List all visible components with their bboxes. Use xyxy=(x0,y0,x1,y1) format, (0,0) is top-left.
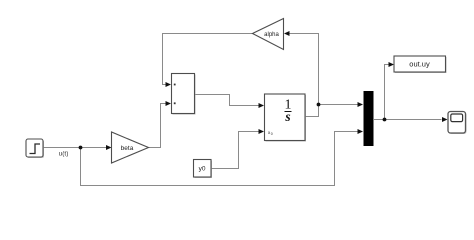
gain alpha xyxy=(253,19,284,50)
arrowhead into sum input 2 xyxy=(166,101,172,106)
wire beta output up to sum input 2 xyxy=(149,104,166,148)
svg-text:s: s xyxy=(284,109,290,124)
node junction feedback to mux xyxy=(317,103,321,107)
step source block xyxy=(26,139,44,158)
arrowhead into beta xyxy=(106,145,112,150)
svg-text:out.uy: out.uy xyxy=(409,60,430,69)
constant y0 block xyxy=(194,160,213,179)
wire sum output to integrator input xyxy=(195,95,259,106)
arrowhead into scope xyxy=(442,117,448,122)
wire feedback junction to mux input 1 xyxy=(319,104,358,106)
arrowhead into integrator x0 port xyxy=(259,129,265,134)
arrowhead into sum input 1 xyxy=(166,82,172,87)
integrator block 1/s xyxy=(265,94,307,142)
arrowhead into mux input 1 xyxy=(358,102,364,107)
mux block xyxy=(364,91,374,146)
label u(t) xyxy=(59,151,69,158)
svg-text:u(t): u(t) xyxy=(59,151,69,158)
node junction after step xyxy=(79,146,83,150)
svg-text:beta: beta xyxy=(121,145,134,152)
sum block xyxy=(172,74,196,115)
wire y0 output to integrator x0 port xyxy=(212,132,259,169)
svg-text:y0: y0 xyxy=(199,166,206,173)
scope block xyxy=(448,112,467,135)
arrowhead into integrator input 1 xyxy=(259,103,265,108)
node junction mux output xyxy=(383,118,387,122)
wire step output to junction to beta xyxy=(43,147,107,149)
wire mux output junction up to out.uy xyxy=(385,65,389,120)
wire alpha output down to sum input 1 xyxy=(163,34,253,85)
gain beta xyxy=(112,132,149,163)
svg-text:alpha: alpha xyxy=(264,32,279,38)
svg-text:0: 0 xyxy=(271,132,273,136)
arrowhead into mux input 2 xyxy=(358,129,364,134)
to-workspace block out.uy xyxy=(394,56,447,73)
wire mux output to scope xyxy=(374,119,442,121)
wire integrator output feedback up to alpha xyxy=(290,34,319,117)
wire branch junction down along bottom to mux input 2 xyxy=(81,132,358,186)
arrowhead into out.uy xyxy=(389,62,395,67)
arrowhead into alpha input xyxy=(284,31,290,36)
